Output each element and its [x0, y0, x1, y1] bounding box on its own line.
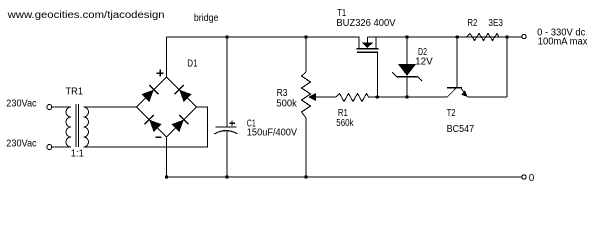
resistor R2 — [467, 34, 500, 41]
bridge diode upper-left — [142, 85, 159, 102]
MOSFET T1 source leg — [375, 37, 377, 49]
transformer TR1 core — [75, 104, 77, 147]
svg-text:www.geocities.com/tjacodesign: www.geocities.com/tjacodesign — [6, 10, 164, 21]
wire bottom rail — [167, 176, 522, 178]
capacitor C1 bottom lead — [226, 132, 228, 178]
svg-text:230Vac: 230Vac — [6, 98, 36, 109]
junction bottom rail at bridge — [165, 175, 168, 178]
transformer TR1 secondary winding — [84, 107, 89, 147]
svg-text:150uF/400V: 150uF/400V — [247, 127, 298, 138]
MOSFET T1 body arrow — [362, 43, 373, 48]
junction top rail at R2 right — [505, 35, 508, 38]
junction top rail at D2 — [405, 35, 408, 38]
junction bottom rail at R3 — [304, 175, 307, 178]
zener diode D2 top lead — [406, 37, 408, 64]
svg-text:1:1: 1:1 — [71, 149, 84, 160]
terminal input top — [47, 105, 52, 110]
wire bridge top lead — [166, 37, 168, 77]
svg-text:T2: T2 — [447, 108, 456, 119]
bridge diode upper-right — [175, 85, 192, 102]
svg-text:560k: 560k — [336, 118, 354, 129]
bridge diode lower-left — [145, 115, 162, 132]
svg-text:D1: D1 — [187, 58, 198, 69]
svg-text:100mA max: 100mA max — [538, 37, 588, 48]
wire top rail right — [367, 36, 521, 38]
junction gate node — [376, 95, 379, 98]
wire bridge bottom lead — [166, 137, 168, 177]
wire emitter to output — [468, 96, 508, 98]
zener diode D2 bottom lead — [406, 77, 408, 97]
transistor T2 emitter — [461, 88, 468, 97]
svg-text:12V: 12V — [415, 57, 433, 68]
label + bridge — [157, 70, 164, 77]
svg-text:TR1: TR1 — [66, 86, 84, 97]
junction top rail at C1 — [225, 35, 228, 38]
potentiometer R3 body — [302, 72, 311, 118]
svg-text:BUZ326 400V: BUZ326 400V — [336, 18, 395, 29]
potentiometer R3 wiper arrow — [308, 93, 316, 101]
junction top rail at R3 — [304, 35, 307, 38]
potentiometer R3 top lead — [305, 37, 307, 72]
junction top rail at T2 base — [456, 35, 459, 38]
svg-text:R2: R2 — [467, 18, 477, 29]
MOSFET T1 body stub — [366, 37, 368, 44]
MOSFET T1 channel bar — [357, 48, 379, 50]
MOSFET T1 drain leg — [358, 37, 360, 49]
MOSFET T1 gate lead — [376, 52, 378, 97]
wire top rail left — [167, 36, 360, 38]
transistor T2 collector — [448, 88, 457, 97]
label + C1 — [229, 121, 235, 127]
terminal input bottom — [47, 145, 52, 150]
svg-text:BC547: BC547 — [447, 124, 475, 135]
wire secondary top to bridge left — [84, 106, 137, 108]
junction bottom rail at C1 — [225, 175, 228, 178]
junction zener node — [405, 95, 408, 98]
capacitor C1 top lead — [226, 37, 228, 127]
label - bridge — [156, 136, 162, 138]
wire secondary bottom to bridge right — [84, 107, 208, 147]
wire input top to primary — [52, 106, 71, 108]
resistor R1 — [336, 94, 369, 102]
MOSFET T1 gate line — [357, 51, 378, 53]
terminal output zero — [522, 175, 526, 179]
svg-text:0: 0 — [529, 173, 535, 184]
transistor T2 base lead — [456, 37, 458, 87]
transistor T2 base bar — [447, 87, 462, 89]
wire input bottom to primary — [52, 146, 71, 148]
svg-text:3E3: 3E3 — [488, 18, 503, 29]
zener diode D2 — [392, 64, 422, 81]
wire R1 to gate node — [368, 96, 448, 98]
wire wiper to R1 — [316, 96, 336, 98]
capacitor C1 — [215, 127, 238, 134]
bridge diode lower-right — [172, 115, 189, 132]
potentiometer R3 bottom lead — [305, 118, 307, 177]
svg-text:500k: 500k — [276, 98, 297, 109]
svg-text:bridge: bridge — [194, 13, 219, 24]
svg-text:230Vac: 230Vac — [6, 138, 36, 149]
transformer TR1 primary winding — [66, 107, 71, 147]
terminal output plus — [522, 34, 526, 38]
diode bridge D1 diamond — [137, 77, 197, 137]
wire output sense down — [506, 37, 508, 97]
